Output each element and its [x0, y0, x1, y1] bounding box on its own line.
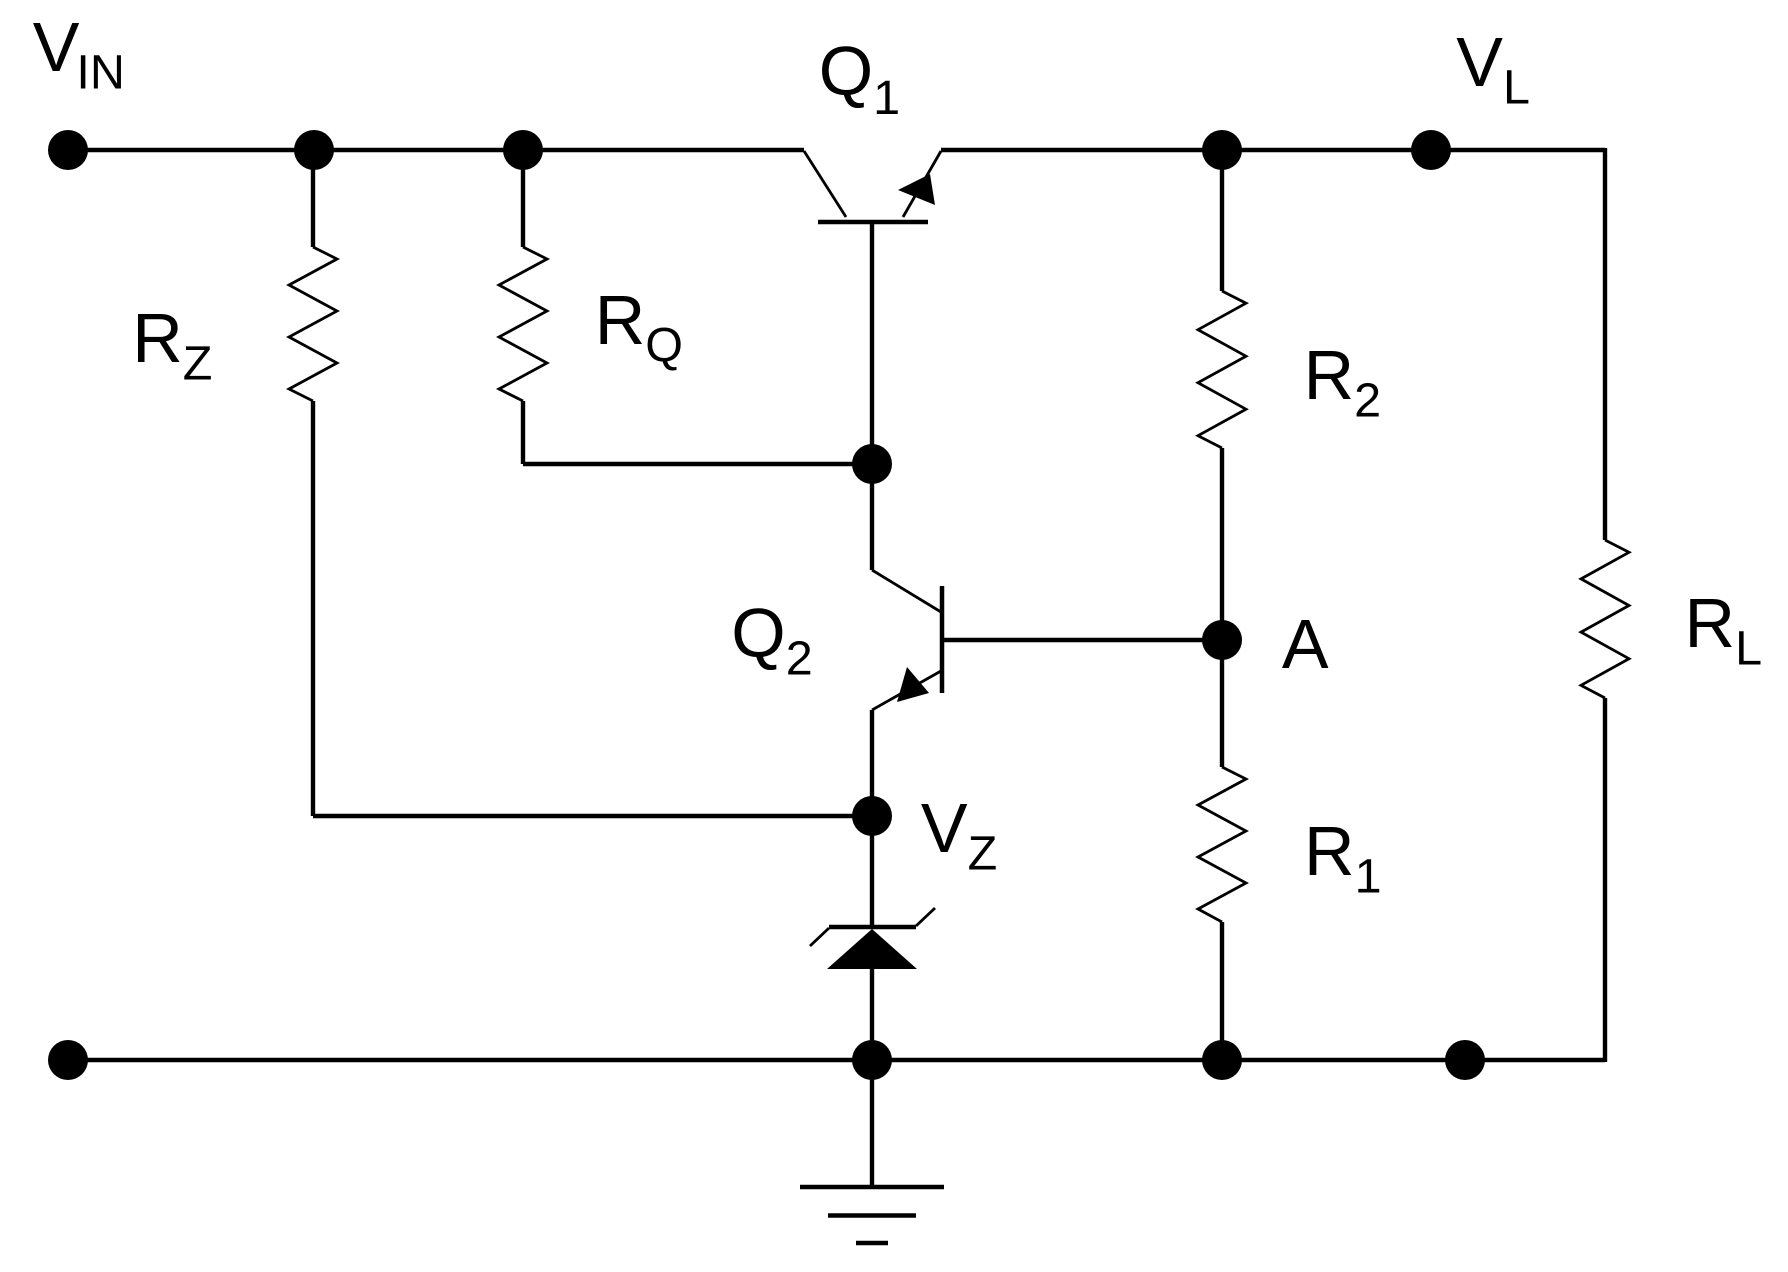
wire R1 top lead — [1220, 640, 1224, 767]
node A junction — [1202, 620, 1242, 660]
resistor RL — [1581, 540, 1629, 698]
node VIN terminal — [48, 130, 88, 170]
resistor R1 — [1198, 767, 1246, 922]
wire top rail right segment (Q1 emitter to VL and RL corner) — [941, 148, 1605, 152]
wire RZ top lead — [311, 150, 315, 247]
node R2 junction — [1202, 130, 1242, 170]
zener diode VZ — [810, 908, 935, 969]
resistor RQ — [499, 247, 547, 401]
wire Q2 base to node A — [944, 638, 1222, 642]
wire RL top lead (down right side) — [1603, 148, 1607, 540]
wire Q2 emitter lead to VZ node — [870, 710, 874, 816]
wire RL bottom lead — [1603, 698, 1607, 1062]
wire top rail left segment (VIN to Q1 collector) — [68, 148, 804, 152]
node VL terminal — [1411, 130, 1451, 170]
wire R2 bottom lead to node A — [1220, 448, 1224, 640]
wire RQ top lead — [521, 150, 525, 247]
node R1 bottom junction — [1202, 1040, 1242, 1080]
wire RQ to Q1 base node — [523, 462, 872, 466]
node RZ junction — [294, 130, 334, 170]
wire RZ bottom lead — [311, 401, 315, 816]
transistor Q1 — [804, 151, 941, 222]
wire RZ to VZ node — [313, 814, 872, 818]
svg-text:A: A — [1282, 605, 1329, 683]
resistor R2 — [1198, 291, 1246, 448]
wire Q1 base lead down to node — [870, 224, 874, 464]
node Q1 base junction — [852, 444, 892, 484]
wire VZ node to zener cathode — [870, 816, 874, 927]
node VZ junction — [852, 796, 892, 836]
resistor RZ — [289, 247, 337, 401]
ground — [800, 1187, 944, 1243]
node zener-ground junction — [852, 1040, 892, 1080]
transistor Q2 — [872, 570, 942, 710]
node bottom rail terminal — [1445, 1040, 1485, 1080]
node bottom-left terminal — [48, 1040, 88, 1080]
node RQ junction — [503, 130, 543, 170]
wire RQ bottom lead — [521, 401, 525, 464]
wire R1 bottom lead — [1220, 922, 1224, 1060]
wire bottom ground rail — [68, 1058, 1605, 1062]
wire ground lead — [870, 1060, 874, 1187]
wire zener anode to bottom rail — [870, 968, 874, 1060]
wire node to Q2 collector — [870, 464, 874, 570]
wire R2 top lead — [1220, 150, 1224, 291]
